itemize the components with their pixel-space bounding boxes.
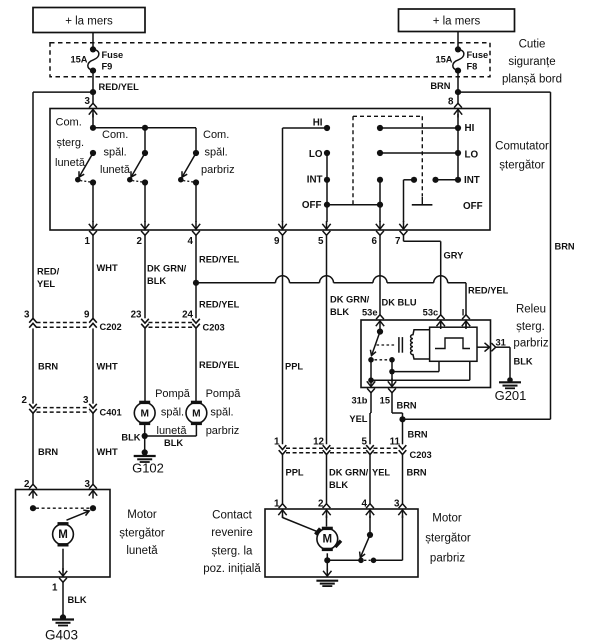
label 15: [380, 395, 390, 405]
svg-text:+ la mers: + la mers: [433, 16, 481, 28]
svg-text:BRN: BRN: [430, 81, 450, 91]
svg-text:9: 9: [84, 309, 90, 320]
svg-text:BLK: BLK: [68, 595, 87, 605]
relay timer pulse waveform: [435, 338, 470, 349]
svg-text:DK BLU: DK BLU: [382, 297, 417, 307]
svg-text:Com.: Com.: [56, 117, 82, 129]
label Com. spal. luneta: [100, 129, 131, 176]
svg-text:1: 1: [274, 436, 280, 447]
label BLK relay: [514, 356, 533, 366]
svg-text:WHT: WHT: [97, 362, 118, 372]
svg-text:YEL: YEL: [37, 279, 55, 289]
wire DK GRN/BLK to motor 2: [326, 455, 328, 505]
relay terminal 31: [477, 343, 496, 352]
node INT throw b: [432, 177, 438, 183]
svg-text:Pompă: Pompă: [155, 388, 191, 400]
svg-text:Contact: Contact: [212, 510, 252, 522]
relay terminal 31b: [367, 379, 375, 393]
connector C401: [29, 404, 97, 413]
label 53c: [423, 307, 439, 317]
wire pin 9 to HI contact: [283, 128, 325, 222]
svg-text:G403: G403: [45, 627, 78, 642]
svg-text:C202: C202: [100, 322, 122, 332]
ground G403: [52, 614, 74, 625]
washer pump parbriz (Pompa spal. parbriz): [186, 401, 207, 425]
node INT mid contact: [377, 177, 383, 183]
label pin 1: [85, 236, 91, 247]
wire DK BLU column to pin 6: [379, 180, 381, 222]
front motor M: [315, 527, 341, 551]
wire YEL 31b to C203: [370, 392, 371, 444]
wire GRY pin7 to relay 53c: [404, 235, 441, 316]
relay dashpot link: [377, 344, 396, 346]
node INT left contact: [324, 177, 330, 183]
svg-text:RED/YEL: RED/YEL: [199, 299, 240, 309]
label BLK pump left: [121, 432, 140, 442]
svg-text:2: 2: [24, 479, 30, 490]
svg-text:ștergător: ștergător: [499, 159, 545, 171]
svg-text:BLK: BLK: [147, 276, 166, 286]
label Fuse F9: [102, 50, 124, 71]
node HI left contact: [324, 125, 330, 131]
label C203 lower: [410, 450, 432, 460]
label G102: [132, 461, 164, 476]
relay terminal 53c: [437, 315, 445, 329]
label INT right: [464, 175, 480, 186]
wire switch 2 to pin 2: [144, 183, 146, 223]
label WHT upper: [97, 263, 118, 273]
label pin 9: [274, 236, 280, 247]
label DK GRN/BLK upper: [147, 263, 187, 286]
svg-text:15: 15: [380, 395, 390, 405]
svg-text:spăl.: spăl.: [161, 407, 184, 419]
relay box (Releu sterg. parbriz): [361, 320, 491, 388]
rear motor terminal 3: [89, 484, 97, 498]
wire LO row right: [380, 152, 458, 154]
label pin 6: [372, 236, 378, 247]
svg-text:RED/YEL: RED/YEL: [199, 360, 240, 370]
svg-text:3: 3: [85, 96, 91, 107]
label INT left: [307, 175, 323, 186]
wire park switch to terminal 3: [374, 516, 403, 561]
wire relay 31b column: [368, 360, 374, 383]
svg-text:I: I: [462, 307, 465, 317]
svg-text:Com.: Com.: [102, 129, 128, 141]
svg-text:5: 5: [318, 236, 324, 247]
wire RED/YEL branch to relay: [196, 276, 466, 316]
label HI right: [465, 123, 475, 134]
pin 9 connector: [278, 221, 286, 235]
wire WHT pin1 to C202: [92, 235, 94, 318]
wire PPL pin9 down: [282, 235, 284, 444]
label front motor 4: [362, 498, 368, 509]
wire switch 1 to pin 1: [92, 183, 94, 223]
svg-text:RED/: RED/: [37, 267, 60, 277]
label BLK pump bottom: [164, 438, 183, 448]
svg-text:M: M: [140, 409, 149, 420]
svg-text:RED/YEL: RED/YEL: [468, 285, 509, 295]
pin 7 connector: [399, 221, 407, 235]
ground G102: [134, 436, 156, 462]
rear motor M: [53, 522, 74, 546]
wire branch to rear wiper feed: [33, 91, 93, 93]
connector C202: [29, 318, 97, 327]
wire WHT segment: [92, 328, 94, 403]
svg-text:DK GRN/: DK GRN/: [329, 467, 369, 477]
label RED/YEL fuse output: [99, 82, 140, 92]
wire BRN bus right: [458, 92, 551, 419]
label LO right: [465, 149, 479, 160]
wire 31 to ground: [496, 347, 511, 380]
svg-text:INT: INT: [464, 175, 480, 186]
label pin 8: [448, 96, 454, 107]
wire DK GRN/BLK pin2 to C203: [144, 235, 146, 318]
svg-text:LO: LO: [465, 149, 479, 160]
switch Com. spal. luneta: [127, 150, 148, 186]
label pin 3: [85, 96, 91, 107]
svg-text:YEL: YEL: [349, 414, 367, 424]
svg-text:1: 1: [52, 582, 58, 593]
svg-text:BRN: BRN: [38, 447, 58, 457]
label pin 2: [137, 236, 143, 247]
dashed wiper mechanism box: [353, 116, 422, 204]
rear motor park contact: [30, 505, 96, 520]
label PPL lower: [286, 467, 304, 477]
wire BRN to rear motor 2: [32, 413, 34, 485]
wiper common contact bar: [412, 197, 433, 205]
svg-text:53c: 53c: [423, 307, 439, 317]
svg-text:3: 3: [394, 498, 400, 509]
wire I to timer: [465, 321, 467, 327]
label 5 C203: [362, 436, 368, 447]
svg-text:Motor: Motor: [127, 509, 157, 521]
relay dashpot plates: [399, 337, 403, 353]
pin 5 connector: [322, 221, 330, 235]
node INT right: [455, 177, 461, 183]
svg-text:BRN: BRN: [407, 467, 427, 477]
svg-text:53e: 53e: [362, 307, 378, 317]
svg-text:ștergător: ștergător: [119, 527, 165, 539]
wire DK BLU pin6 to relay 53e: [379, 235, 381, 316]
label RED/YEL relay: [468, 285, 509, 295]
svg-text:Cutie: Cutie: [519, 38, 546, 50]
label Com. spal. parbriz: [201, 129, 235, 176]
front motor terminal 2: [322, 504, 330, 518]
wire motor to ground: [326, 560, 328, 571]
wire motor to common: [324, 553, 361, 563]
node OFF junction: [377, 202, 383, 208]
label C203 upper: [203, 323, 225, 333]
svg-text:3: 3: [24, 309, 30, 320]
svg-text:spăl.: spăl.: [210, 407, 233, 419]
label G201: [495, 388, 527, 403]
svg-text:parbriz: parbriz: [430, 552, 465, 564]
svg-text:RED/YEL: RED/YEL: [199, 254, 240, 264]
svg-text:Motor: Motor: [432, 513, 462, 525]
label YEL lower: [372, 467, 390, 477]
svg-text:BRN: BRN: [397, 400, 417, 410]
svg-text:6: 6: [372, 236, 378, 247]
label Contact revenire sterg. la poz. initiala: [203, 510, 261, 576]
relay switch blade: [368, 329, 383, 363]
svg-text:YEL: YEL: [372, 467, 390, 477]
label BRN fuse output: [430, 81, 450, 91]
svg-text:2: 2: [318, 498, 324, 509]
label pin 4: [188, 236, 194, 247]
svg-text:G201: G201: [495, 388, 527, 403]
label PPL upper: [285, 362, 303, 372]
relay terminal 15: [388, 379, 396, 393]
svg-text:șterg.: șterg.: [57, 137, 85, 149]
svg-text:HI: HI: [313, 118, 323, 129]
connector C203 lower: [279, 445, 407, 454]
front motor ground pin: [323, 569, 331, 577]
svg-text:lunetă: lunetă: [55, 157, 86, 169]
label BRN bottom: [407, 467, 427, 477]
node HI right: [455, 125, 461, 131]
node OFF left contact: [324, 202, 330, 208]
label GRY: [444, 250, 465, 260]
svg-text:șterg. la: șterg. la: [212, 546, 254, 558]
svg-text:siguranțe: siguranțe: [508, 56, 555, 68]
label pin 5: [318, 236, 324, 247]
svg-text:WHT: WHT: [97, 447, 118, 457]
washer pump luneta (Pompa spal. luneta): [134, 401, 155, 425]
relay timer box: [430, 327, 477, 361]
label 12 C203: [313, 436, 324, 447]
label C202: [100, 322, 122, 332]
svg-text:BLK: BLK: [330, 307, 349, 317]
wire RED/YEL left column: [32, 92, 34, 318]
wire pin3 to feed bus: [92, 114, 94, 128]
label YEL upper: [349, 414, 367, 424]
label rear motor pin 1: [52, 582, 58, 593]
wire BLK to G403: [62, 582, 64, 618]
label Com. sterg. luneta: [55, 117, 86, 170]
svg-text:parbriz: parbriz: [201, 164, 235, 176]
label WHT lower: [97, 447, 118, 457]
label 24 C203: [182, 309, 193, 320]
svg-text:31b: 31b: [351, 395, 367, 405]
label 9 C202: [84, 309, 90, 320]
rear motor pin 1 connector: [59, 568, 67, 582]
svg-text:2: 2: [22, 395, 28, 406]
wiper switch box: [50, 109, 490, 231]
label BRN left mid: [38, 362, 58, 372]
node feed bus / switch 1: [90, 125, 96, 131]
svg-text:LO: LO: [309, 149, 323, 160]
wire BRN 15 to junction: [392, 392, 403, 444]
label Fuse F8: [467, 50, 489, 71]
label 1 C203: [274, 436, 280, 447]
rear motor terminal 2: [29, 484, 37, 498]
node feed bus / switch 2: [142, 125, 148, 153]
svg-text:BLK: BLK: [514, 356, 533, 366]
label OFF left: [302, 200, 322, 211]
label DK GRN/BLK lower: [329, 467, 369, 490]
wire pump luneta to ground node: [144, 425, 146, 436]
svg-text:9: 9: [274, 236, 280, 247]
pin 6 connector: [376, 221, 384, 235]
svg-text:+ la mers: + la mers: [65, 16, 113, 28]
relay switch link dashed: [375, 357, 395, 363]
label 11 C203: [390, 436, 401, 447]
label BLK rear: [68, 595, 87, 605]
wire battery left to fuse F9: [92, 33, 94, 50]
label WHT mid: [97, 362, 118, 372]
fuse box (dashed) Cutie sigurante plansa bord: [50, 43, 490, 77]
svg-text:23: 23: [131, 309, 142, 320]
svg-text:lunetă: lunetă: [157, 425, 188, 437]
svg-text:1: 1: [85, 236, 91, 247]
wire C203 to pump luneta: [144, 328, 146, 401]
svg-text:DK GRN/: DK GRN/: [330, 294, 370, 304]
pin 1 connector: [89, 221, 97, 235]
wire terminal 1 to motor brush: [283, 516, 318, 532]
svg-text:C203: C203: [410, 450, 432, 460]
label front motor 2: [318, 498, 324, 509]
power feed box '+ la mers' right: [399, 9, 515, 32]
svg-text:Fuse: Fuse: [102, 50, 124, 60]
svg-text:parbriz: parbriz: [206, 425, 240, 437]
svg-text:C401: C401: [100, 408, 122, 418]
svg-text:2: 2: [137, 236, 143, 247]
label rear motor 3: [85, 479, 91, 490]
svg-text:Releu: Releu: [516, 303, 546, 315]
node HI mid contact: [377, 125, 383, 131]
wire HI row right: [380, 127, 458, 129]
wire fuse F8 to pin 8: [457, 71, 459, 105]
label BRN lower: [408, 429, 428, 439]
label I: [462, 307, 465, 317]
label BRN 15: [397, 400, 417, 410]
front motor terminal 3: [398, 504, 406, 518]
label 15A fuse F8: [435, 55, 452, 65]
wire DK GRN/BLK pin5 down: [326, 235, 328, 444]
power feed box '+ la mers' left: [33, 8, 145, 33]
wire BRN to motor 3: [402, 455, 404, 505]
wire 53c to timer: [440, 321, 442, 327]
wire terminal 2 to motor: [326, 516, 328, 527]
fuse F8: [453, 46, 464, 73]
label Pompa spal. parbriz: [206, 388, 242, 437]
wire relay 15 column: [389, 360, 395, 382]
svg-text:M: M: [58, 529, 68, 541]
ground front motor: [316, 581, 338, 586]
wire switch 3 to pin 4: [195, 183, 197, 223]
svg-text:F9: F9: [102, 61, 113, 71]
label LO left: [309, 149, 323, 160]
front motor park switch: [358, 516, 376, 564]
svg-text:24: 24: [182, 309, 193, 320]
wire RED/YEL-BRN segment: [32, 328, 34, 403]
switch Com. spal. parbriz: [178, 150, 199, 186]
svg-text:Comutator: Comutator: [495, 141, 549, 153]
relay terminal 53e: [376, 315, 384, 329]
svg-text:3: 3: [85, 479, 91, 490]
wire relay 15 to timer: [392, 361, 439, 371]
label Motor stergator parbriz: [425, 513, 471, 565]
label DK BLU: [382, 297, 417, 307]
wire C203 to pump parbriz: [195, 328, 197, 401]
wire INT throw to feed: [436, 179, 459, 181]
svg-text:poz. inițială: poz. inițială: [203, 563, 261, 575]
label Comutator stergator: [495, 141, 549, 172]
wire BRN bus lower: [403, 418, 551, 420]
front motor terminal 1: [278, 504, 286, 518]
label RED/YEL lower left: [199, 360, 240, 370]
svg-text:Fuse: Fuse: [467, 50, 489, 60]
svg-text:PPL: PPL: [286, 467, 304, 477]
label Releu sterg. parbriz: [513, 303, 548, 349]
node BRN junction lower: [399, 416, 405, 422]
label Cutie sigurante plansa bord: [502, 38, 562, 85]
svg-text:BRN: BRN: [555, 241, 575, 251]
svg-text:15A: 15A: [70, 55, 87, 65]
svg-text:parbriz: parbriz: [513, 337, 548, 349]
wire OFF row: [327, 204, 380, 206]
wire relay 31b to timer: [371, 361, 470, 380]
front wiper motor box: [265, 509, 418, 577]
front motor terminal 4: [366, 504, 374, 518]
label BRN left lower: [38, 447, 58, 457]
svg-text:WHT: WHT: [97, 263, 118, 273]
relay terminal I: [462, 315, 470, 329]
svg-text:8: 8: [448, 96, 454, 107]
node BRN junction: [455, 89, 461, 95]
svg-text:lunetă: lunetă: [126, 545, 158, 557]
label pin 7: [395, 236, 401, 247]
wire feed column: [457, 114, 459, 180]
label Pompa spal. luneta: [155, 388, 191, 437]
label OFF right: [463, 201, 483, 212]
svg-text:BLK: BLK: [329, 480, 348, 490]
node RED/YEL branch: [193, 280, 199, 286]
svg-text:F8: F8: [467, 61, 478, 71]
label RED/YEL left column: [37, 267, 60, 290]
wire rear motor to pin 1: [62, 549, 64, 572]
label BRN right bus: [555, 241, 575, 251]
svg-text:DK GRN/: DK GRN/: [147, 263, 187, 273]
svg-text:RED/YEL: RED/YEL: [99, 82, 140, 92]
svg-text:G102: G102: [132, 461, 164, 476]
svg-text:7: 7: [395, 236, 401, 247]
svg-text:Pompă: Pompă: [206, 388, 242, 400]
svg-text:M: M: [192, 409, 201, 420]
label HI left: [313, 118, 323, 129]
ground G201: [499, 377, 521, 388]
label C401: [100, 408, 122, 418]
label G403: [45, 627, 78, 642]
svg-text:BLK: BLK: [121, 432, 140, 442]
svg-text:1: 1: [274, 498, 280, 509]
svg-text:PPL: PPL: [285, 362, 303, 372]
wire pin 7 to INT throw: [404, 180, 415, 222]
svg-text:revenire: revenire: [211, 527, 253, 539]
wire YEL to motor 4: [369, 455, 371, 505]
label rear motor 2: [24, 479, 30, 490]
svg-text:31: 31: [496, 337, 506, 347]
svg-text:OFF: OFF: [302, 200, 322, 211]
label DK GRN/BLK pin5: [330, 294, 370, 317]
label 3 C401: [83, 395, 89, 406]
label RED/YEL pin4 upper: [199, 254, 240, 264]
node LO left contact: [324, 150, 330, 156]
svg-text:planșă bord: planșă bord: [502, 73, 562, 85]
svg-text:BRN: BRN: [408, 429, 428, 439]
svg-text:5: 5: [362, 436, 368, 447]
svg-text:BLK: BLK: [164, 438, 183, 448]
